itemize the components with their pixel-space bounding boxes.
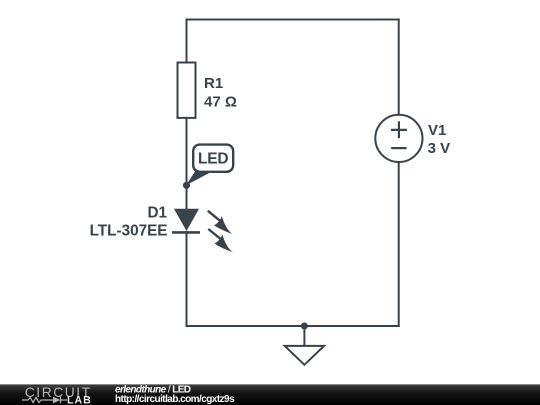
svg-text:47 Ω: 47 Ω — [204, 93, 237, 110]
diode D1 cathode bar — [172, 231, 200, 234]
diode D1 triangle — [174, 209, 199, 231]
wire left middle — [186, 117, 188, 210]
svg-text:R1: R1 — [204, 75, 223, 92]
wire left upper — [186, 19, 188, 64]
svg-text:LTL-307EE: LTL-307EE — [90, 222, 168, 239]
LED light arrow 2 — [208, 229, 233, 252]
svg-text:3 V: 3 V — [428, 140, 451, 157]
logo resistor zigzag and diode — [22, 397, 67, 404]
wire left lower — [186, 231, 188, 327]
wire top — [186, 19, 400, 21]
svg-text:V1: V1 — [428, 122, 446, 139]
annotation LED callout — [186, 145, 233, 186]
ground — [285, 326, 324, 365]
resistor R1 — [178, 63, 237, 118]
svg-text:D1: D1 — [147, 204, 167, 221]
node junction dot (ground net) — [301, 323, 308, 330]
wire right lower — [398, 162, 400, 328]
svg-text:LED: LED — [198, 151, 228, 168]
footer bar — [0, 384, 540, 405]
wire bottom — [186, 325, 400, 327]
node junction dot (LED net) — [183, 182, 190, 189]
wire right upper — [398, 19, 400, 116]
svg-text:LAB: LAB — [67, 394, 92, 405]
svg-text:http://circuitlab.com/cgxtz9s: http://circuitlab.com/cgxtz9s — [115, 394, 235, 405]
voltage source V1 — [375, 115, 450, 162]
LED light arrow 1 — [208, 211, 233, 234]
